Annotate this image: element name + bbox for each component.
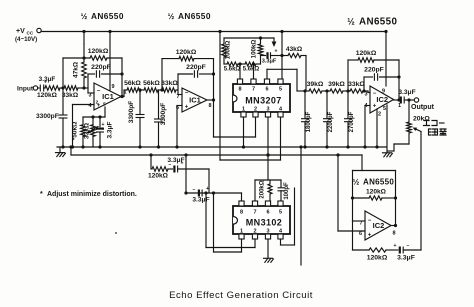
IC MN3102 [233,201,290,239]
svg-text:220pF: 220pF [186,64,206,71]
svg-text:1: 1 [242,107,245,113]
Input terminal [17,86,38,93]
svg-text:9: 9 [111,84,114,90]
wire fb right [120,58,123,98]
wire out1 to ladder [121,90,127,97]
svg-text:120kΩ: 120kΩ [148,173,169,180]
wire pin1 3102 [212,191,242,252]
wire pin6 IC1b [175,106,182,149]
svg-text:−: − [261,49,264,55]
wire pin3 3207 down [266,117,269,157]
wire pin7 3102 up [254,180,256,201]
capacitor 3.3uF out [398,89,415,104]
svg-text:120kΩ: 120kΩ [37,92,58,99]
svg-text:6: 6 [265,87,268,93]
svg-text:3.3μF: 3.3μF [398,89,415,96]
pin labels IC1a [88,84,126,109]
svg-text:33kΩ: 33kΩ [62,92,79,99]
svg-text:7: 7 [253,210,256,216]
wire Vcc rail [41,31,386,33]
caption [169,290,313,301]
label ½ AN6550 (2) [168,11,211,21]
svg-text:IC1: IC1 [102,92,114,101]
svg-text:8: 8 [240,210,243,216]
wire wiper riser [420,132,422,251]
wire fb2 top [162,58,214,60]
wire pin9 IC2a [384,30,387,86]
svg-text:33kΩ: 33kΩ [348,81,365,88]
capacitor 3.3uF input [38,76,56,92]
svg-text:3.3μF: 3.3μF [397,255,415,262]
wire pot bottom [388,144,409,151]
svg-text:7: 7 [359,221,362,227]
potentiometer 20k [407,100,431,144]
svg-text:120kΩ: 120kΩ [367,255,388,262]
svg-text:2700pF: 2700pF [349,111,355,132]
wire feedback left [62,58,64,88]
svg-text:5.6kΩ: 5.6kΩ [224,67,241,73]
svg-text:3.3μF: 3.3μF [39,76,56,83]
svg-text:½: ½ [353,178,360,187]
resistor 120k feedback1 [88,48,109,60]
wire rail drop x282 [280,30,283,79]
svg-text:+: + [185,105,189,111]
svg-text:1: 1 [240,229,243,235]
wire y193 [186,192,242,194]
capacitor 2200pF [323,89,334,148]
wire chain1 down [208,169,210,193]
svg-text:5: 5 [383,106,386,112]
wire pin7 3207 up [252,62,255,79]
wire rail tick 47k [82,30,85,44]
wire fb3 right [397,60,400,102]
capacitor 3.3uF 3102in [192,186,209,204]
svg-text:6: 6 [359,231,362,237]
op-amp IC2 second [365,211,391,240]
svg-text:IC2: IC2 [373,221,385,230]
svg-text:+: + [368,233,372,239]
svg-text:8: 8 [208,103,211,109]
wire fb4 top [353,170,396,172]
footnote [40,191,137,198]
resistor 43k [282,46,306,58]
stray dot [115,232,117,234]
wire pin4 3102 [281,188,295,245]
svg-text:3300pF: 3300pF [36,113,59,120]
wire to pin3 [78,88,94,93]
resistor 33k input [62,86,79,99]
wire pin4 IC1a [71,105,94,149]
svg-text:8: 8 [238,87,241,93]
resistor 200k osc [260,180,273,201]
label echo adjust [424,121,447,136]
resistor 39k a [307,81,324,93]
svg-text:AN6550: AN6550 [178,11,211,21]
capacitor 1800pF [301,89,312,148]
svg-text:3.3μF: 3.3μF [107,121,114,138]
resistor 56k b [141,80,160,92]
wire feedback top [63,57,122,59]
svg-text:−: − [373,91,377,97]
svg-text:3: 3 [266,229,269,235]
svg-text:7: 7 [176,94,179,100]
op-amp IC2 first [370,86,394,113]
svg-text:Adjust minimize distortion.: Adjust minimize distortion. [47,191,137,198]
capacitor 3.3uF chain1 [167,157,209,173]
wire pin2 IC2a [375,109,378,149]
svg-text:+: + [394,243,397,249]
svg-text:100kΩ: 100kΩ [251,40,258,59]
wire pin4 IC2a [363,106,370,149]
capacitor 3300pF b [154,90,167,149]
svg-text:*50kΩ: *50kΩ [72,122,79,141]
wire pin6 3207 loop [267,69,297,91]
wire pin1 3207 gnd [242,117,245,149]
wire chain1 drop [150,155,152,169]
svg-text:100pF: 100pF [284,182,290,200]
resistor 120k fb3 [356,50,377,62]
wire fb4 left [353,171,366,222]
capacitor 220pF fb2 [178,64,215,78]
svg-text:39kΩ: 39kΩ [328,81,345,88]
arrow down marker [272,38,277,47]
svg-text:1800pF: 1800pF [306,111,312,132]
svg-text:+: + [275,49,278,55]
svg-text:AN6550: AN6550 [363,178,394,187]
wire pin2 3102 [204,191,255,247]
svg-text:120kΩ: 120kΩ [366,189,387,196]
capacitor 3300pF input [36,88,68,149]
svg-text:−: − [407,243,410,249]
wire fb3 left [347,60,349,91]
capacitor 3300pF a [128,88,145,148]
wire fb2 left [161,59,163,90]
resistor 120k fb4 [351,189,397,201]
ground MN3102 pin3 [264,239,274,262]
wire long x301 [299,145,302,265]
svg-text:½: ½ [168,12,175,21]
pin labels IC2a [364,89,401,118]
op-amp IC1 first [94,83,121,110]
svg-text:(4~10V): (4~10V) [15,36,37,43]
svg-text:120kΩ: 120kΩ [88,48,109,55]
svg-text:−: − [185,91,189,97]
svg-text:20kΩ: 20kΩ [413,116,430,123]
Vcc terminal [15,28,41,43]
wire chain2 left [352,221,354,250]
svg-text:IC1: IC1 [189,96,201,105]
capacitor 3.3uF stage1 [96,115,114,148]
wire pin9 IC1a [108,30,111,90]
capacitor 3.3uF chain2 [386,243,421,262]
svg-text:Input: Input [17,86,34,93]
wire pin7 jog [176,74,182,95]
capacitor 220pF fb3 [362,67,400,93]
svg-text:−: − [368,218,372,224]
resistor 120k fb2 [176,49,197,61]
wiper arrow 20k [413,128,422,132]
svg-text:39kΩ: 39kΩ [307,81,324,88]
node input junction [60,86,65,89]
svg-text:5: 5 [279,210,282,216]
node x151 [149,153,152,156]
resistor 120k chain2 [353,248,388,262]
capacitor 100pF osc [278,180,291,201]
resistor 120k chain1 [148,167,169,180]
svg-text:*: * [40,191,43,198]
svg-text:+: + [373,104,377,110]
wire x362 drop [361,155,363,171]
resistor 33k c [158,80,178,92]
wire 5.6k row [224,56,261,65]
svg-text:−: − [97,89,101,95]
svg-text:AN6550: AN6550 [91,11,124,21]
svg-text:3: 3 [266,107,269,113]
wire ground rail [57,146,386,148]
wire 39k row [297,91,370,93]
potentiometer 50k [72,117,86,149]
IC MN3207 [233,79,290,117]
svg-text:43kΩ: 43kΩ [286,46,303,53]
resistor 5.6k b [243,62,260,73]
svg-text:100kΩ: 100kΩ [225,41,232,60]
svg-text:+: + [102,122,105,128]
svg-text:120kΩ: 120kΩ [356,50,377,57]
svg-text:5.6kΩ: 5.6kΩ [243,67,260,73]
svg-text:Echo Effect Generation Circuit: Echo Effect Generation Circuit [169,290,313,301]
svg-text:220pF: 220pF [364,67,384,74]
svg-text:8: 8 [392,231,395,237]
wire fb3 top [348,59,399,61]
resistor 33k vert [91,115,96,147]
resistor 33k d [348,81,365,93]
svg-text:3.3μF: 3.3μF [167,157,184,164]
wire signal rail [69,145,362,155]
capacitor 2700pF [344,89,355,148]
resistor 39k b [328,81,345,93]
svg-text:−: − [193,187,196,193]
pin labels IC2b [359,218,396,239]
svg-text:3.3μF: 3.3μF [192,197,209,204]
svg-text:Output: Output [411,104,435,111]
label 33k vert [84,123,91,139]
svg-text:3.3μF: 3.3μF [262,59,277,65]
svg-text:3: 3 [88,93,91,99]
svg-text:220pF: 220pF [91,64,111,71]
label ½ AN6550 (3) [347,17,397,28]
svg-text:½: ½ [81,12,88,21]
svg-text:MN3207: MN3207 [245,96,281,106]
wire out2 down [213,59,215,137]
svg-text:56kΩ: 56kΩ [124,80,141,87]
wire x268 drop [266,153,269,180]
wire 43k down [305,56,307,92]
svg-text:2: 2 [254,107,257,113]
wire to pin2 3207 [214,117,256,137]
svg-text:+: + [206,186,209,192]
wiper arrow 50k [87,127,99,134]
resistor 47k [73,44,87,90]
pin labels IC1b [176,91,212,112]
label ½ AN6550 (4) [353,178,395,187]
svg-text:1: 1 [398,103,401,109]
capacitor 3.3uF osc [261,49,284,65]
resistor 120k input [37,86,60,99]
svg-text:56kΩ: 56kΩ [143,80,160,87]
resistor 100k b [251,38,263,58]
wire pin8 3207 up [238,62,241,79]
svg-text:5: 5 [279,87,282,93]
svg-text:AN6550: AN6550 [359,17,397,28]
wire vcc drop x220 [218,30,221,160]
capacitor 220pF fb1 [88,64,122,88]
svg-text:MN3102: MN3102 [246,218,282,228]
svg-text:33kΩ: 33kΩ [161,80,178,87]
svg-text:CC: CC [27,31,34,36]
svg-text:7: 7 [252,87,255,93]
svg-text:IC2: IC2 [376,95,388,104]
wire tops 100k [224,36,274,39]
wire out4 [391,225,396,227]
resistor 100k a [222,38,232,64]
wire bottom tops [83,107,105,117]
svg-text:2: 2 [378,112,381,118]
svg-text:9: 9 [382,89,385,95]
wire osc top [255,179,281,181]
Output terminal [411,98,435,111]
svg-text:½: ½ [347,17,355,27]
svg-text:6: 6 [266,210,269,216]
ground symbol left [56,147,66,157]
wire x186 drop [184,153,187,194]
svg-text:120kΩ: 120kΩ [176,49,197,56]
svg-text:200kΩ: 200kΩ [260,180,266,198]
resistor 5.6k a [224,62,241,73]
svg-text:3300pF: 3300pF [128,101,135,123]
op-amp IC1 second [182,88,207,112]
wire pin4 3207 route [220,117,281,160]
svg-text:3300pF: 3300pF [160,103,167,125]
svg-text:47kΩ: 47kΩ [73,62,80,78]
svg-text:2: 2 [96,100,99,106]
label ½ AN6550 (1) [81,11,124,21]
wire fb4 right [394,171,397,228]
wire x337 drop [336,153,365,231]
svg-text:2200pF: 2200pF [328,111,334,132]
wire pin8 3102 [241,193,243,201]
svg-text:3: 3 [364,92,367,98]
svg-text:2: 2 [253,229,256,235]
wire pin5 gnd IC2a [383,105,393,157]
resistor 56k a [124,80,141,92]
wire out2 [207,98,215,101]
wire out3 [394,99,401,101]
svg-text:+V: +V [16,28,25,35]
